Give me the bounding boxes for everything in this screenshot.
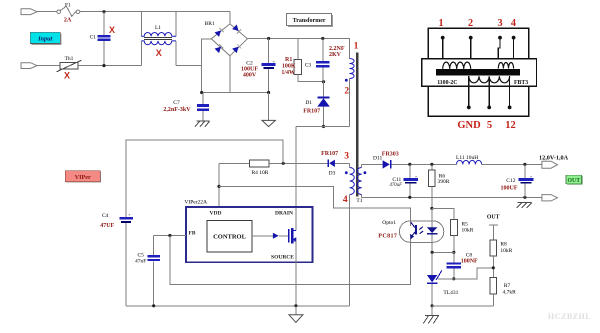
svg-text:CONTROL: CONTROL [213, 234, 247, 241]
svg-text:47UF: 47UF [100, 223, 114, 229]
resistor R5 [451, 219, 458, 235]
thermistor Th1 [37, 65, 60, 67]
svg-text:R8: R8 [500, 241, 507, 247]
resistor R1 [297, 39, 299, 60]
svg-text:C7: C7 [173, 100, 180, 106]
svg-text:2: 2 [344, 87, 349, 97]
wire bridge left to lower rail [202, 39, 212, 93]
node D3 cathode junction [282, 162, 285, 165]
label Input box [30, 32, 61, 45]
node junction C1 bottom [102, 64, 105, 67]
transistor TL431 [431, 252, 433, 275]
svg-text:R4 10R: R4 10R [252, 170, 269, 176]
svg-text:400V: 400V [243, 72, 257, 78]
svg-text:Transformer: Transformer [293, 18, 326, 24]
wire secondary output rail [362, 163, 383, 165]
svg-text:L1: L1 [155, 25, 161, 31]
wire drain column [295, 127, 297, 231]
svg-text:C1: C1 [90, 35, 97, 41]
svg-text:100K: 100K [282, 63, 296, 69]
pin 4 [512, 36, 516, 40]
wire TL431 ref [438, 268, 494, 279]
wire source column [295, 241, 297, 306]
pin 12 [508, 106, 512, 110]
svg-text:470uF: 470uF [389, 183, 402, 188]
svg-text:R7: R7 [504, 283, 511, 289]
svg-text:T1: T1 [356, 198, 362, 204]
svg-text:DRAIN: DRAIN [275, 211, 293, 217]
diode BR1 top-right [232, 25, 241, 34]
transformer T1 pin3 lead [349, 163, 351, 167]
power ground symbol under C2 [268, 93, 270, 121]
diode BR1 bottom-right [232, 44, 241, 53]
capacitor C4 [119, 217, 132, 220]
svg-text:Th1: Th1 [65, 56, 74, 62]
wire [37, 11, 57, 13]
svg-text:2,2nF-3kV: 2,2nF-3kV [163, 107, 191, 113]
wire bottom pin GND lead [468, 76, 470, 107]
svg-text:X: X [109, 25, 115, 35]
svg-text:L11 10uH: L11 10uH [456, 155, 478, 161]
resistor R7 [490, 277, 497, 294]
svg-text:C12: C12 [506, 178, 515, 184]
wire primary ground rail [126, 305, 350, 307]
wire bottom pin 12 lead [509, 76, 511, 107]
capacitor C2 [268, 39, 270, 64]
svg-text:C5: C5 [137, 252, 144, 258]
wire pin3 lead [498, 38, 500, 66]
transformer bobbin strip [422, 59, 537, 87]
winding aux top-right [498, 62, 513, 68]
resistor R6 [431, 164, 433, 170]
svg-text:FR303: FR303 [382, 151, 399, 157]
wire FB pin [154, 235, 186, 237]
inductor L1 common mode choke [140, 12, 142, 37]
svg-text:SOURCE: SOURCE [271, 254, 294, 260]
wire pin2 lead [470, 38, 472, 66]
capacitor C11 [409, 164, 411, 178]
node LED cathode junction [431, 251, 434, 254]
svg-text:47nF: 47nF [135, 259, 146, 265]
svg-text:1: 1 [438, 18, 443, 29]
label VIPer box [65, 171, 101, 183]
svg-text:X: X [64, 70, 70, 80]
winding secondary bottom [469, 76, 510, 83]
wire bridge bottom [229, 56, 231, 93]
ground earth symbol output [518, 201, 532, 203]
svg-text:D3: D3 [329, 171, 336, 177]
op-amp U1 VIPer22A box [186, 207, 313, 262]
wire FB to opto emitter [170, 236, 411, 285]
bridge rectifier BR1 [229, 12, 231, 24]
capacitor C5 [153, 236, 155, 256]
node phase dot aux [345, 171, 348, 174]
resistor R8 [490, 240, 497, 256]
output connector tag return [542, 195, 558, 201]
svg-text:10kR: 10kR [500, 248, 512, 254]
wire top rail [80, 11, 230, 13]
pin 5 [487, 106, 491, 110]
node phase dot primary [345, 79, 348, 82]
diode D1 FR107 [323, 82, 325, 97]
wire ground mid rail [202, 92, 269, 94]
svg-text:4: 4 [343, 195, 348, 205]
node R8/R7 junction [492, 266, 495, 269]
diode D11 FR303 [383, 160, 390, 168]
capacitor C12 [524, 164, 526, 178]
inductor L11 [457, 160, 482, 164]
diode D3 FR107 [327, 160, 329, 167]
svg-text:100NF: 100NF [461, 258, 478, 264]
diode BR1 bottom-left [215, 44, 224, 53]
wire R5 jog [432, 208, 454, 219]
transformer core bar [436, 69, 520, 76]
node VDD junction [217, 185, 220, 188]
pin 1 [441, 36, 445, 40]
svg-text:2: 2 [468, 18, 473, 29]
svg-text:Input: Input [37, 36, 52, 43]
pin 3 [498, 36, 502, 40]
wire secondary ground rail lower [432, 305, 493, 307]
node R6 bottom junction [430, 207, 433, 210]
svg-text:X: X [156, 48, 162, 58]
svg-text:D1: D1 [305, 100, 312, 106]
wire pin2 lead [349, 79, 351, 127]
wire C4 feed [126, 140, 283, 217]
svg-text:VIPer: VIPer [75, 174, 91, 181]
svg-text:4: 4 [511, 18, 516, 29]
svg-text:12,0V-1,0A: 12,0V-1,0A [539, 155, 569, 162]
node C12 top [523, 163, 526, 166]
capacitor C1 [103, 12, 105, 35]
transistor Q1 mosfet [288, 229, 290, 242]
wire drain rail [296, 126, 350, 128]
wire secondary ground rail [362, 196, 542, 198]
svg-text:12: 12 [505, 120, 516, 131]
transformer T1 secondary winding [357, 168, 362, 195]
wire aux rail pin3 [219, 162, 249, 164]
control block [207, 220, 252, 252]
wire VDD drop [218, 163, 220, 207]
wire secondary top lead [361, 164, 363, 167]
output connector tag plus [542, 161, 558, 168]
svg-text:BR1: BR1 [205, 21, 215, 27]
node R1/C3/D1 junction [322, 80, 325, 83]
transformer T1 aux winding [350, 168, 355, 195]
node OUT stub [489, 224, 498, 226]
pin 2 [469, 36, 473, 40]
wire VDD to opto collector jog [219, 186, 411, 221]
svg-text:FBT3: FBT3 [514, 80, 528, 86]
wire bottom pin 5 lead [488, 79, 490, 107]
svg-text:100UF: 100UF [501, 186, 518, 192]
ground power symbol primary [295, 306, 297, 315]
node R5/C8 junction [452, 251, 455, 254]
node C11 top [408, 163, 411, 166]
svg-text:OUT: OUT [568, 178, 581, 184]
node FB junction [168, 234, 171, 237]
svg-text:C4: C4 [102, 213, 109, 219]
svg-text:GND: GND [457, 120, 481, 131]
transformer T1 primary pin1 lead [349, 39, 351, 59]
pin GND [467, 106, 471, 110]
node junction C1 top [102, 10, 105, 13]
svg-text:C3: C3 [305, 63, 312, 69]
node drain rail / D1 [322, 125, 325, 128]
input connector tag top [21, 9, 37, 15]
svg-text:HCZBZHL: HCZBZHL [548, 312, 591, 321]
svg-text:VIPer22A: VIPer22A [184, 199, 207, 205]
wire pin4 lead [513, 38, 515, 66]
capacitor C8 [453, 252, 455, 262]
node C3 top [321, 37, 324, 40]
diode opto LED [431, 208, 433, 227]
svg-text:5: 5 [487, 120, 492, 131]
svg-text:2KV: 2KV [329, 52, 342, 58]
svg-text:R1: R1 [285, 57, 292, 63]
svg-text:FR107: FR107 [303, 108, 320, 114]
svg-text:1/4W: 1/4W [281, 70, 295, 76]
input connector tag bottom [21, 63, 37, 69]
svg-text:PC817: PC817 [378, 234, 397, 240]
winding primary top-left [443, 62, 471, 69]
svg-text:+: + [415, 174, 418, 179]
wire secondary bottom lead [361, 195, 363, 198]
svg-text:TL431: TL431 [443, 290, 458, 296]
svg-text:4,7kR: 4,7kR [503, 289, 517, 295]
node R6 top [430, 163, 433, 166]
capacitor C7 [202, 93, 204, 105]
svg-text:+: + [530, 174, 533, 179]
wire gate drive [252, 235, 273, 237]
svg-text:390R: 390R [438, 179, 450, 185]
wire DC+ rail [247, 38, 350, 40]
node C8 bottom junction [452, 277, 455, 280]
fuse F1 [57, 10, 61, 14]
opto-coupler Opto1 PC817 [399, 221, 443, 242]
resistor R4 [249, 160, 268, 167]
wire bottom rail [78, 65, 141, 67]
label Transformer box [287, 14, 333, 27]
node C2 top [267, 37, 270, 40]
transformer pinout box [428, 28, 528, 116]
wire R5 to LED cathode [432, 251, 454, 253]
svg-text:F1: F1 [65, 2, 71, 8]
transformer T1 primary winding [350, 59, 355, 79]
diode BR1 top-left [215, 28, 224, 37]
capacitor C3 [322, 39, 324, 62]
svg-text:C11: C11 [392, 177, 401, 183]
svg-text:R5: R5 [462, 221, 469, 227]
ground earth symbol TL431 [431, 306, 433, 316]
svg-text:VDD: VDD [210, 211, 222, 217]
transformer core [356, 53, 359, 197]
wire pin4 column [349, 195, 351, 306]
label OUT box [566, 175, 582, 184]
node TL431 ground [431, 304, 434, 307]
svg-text:3: 3 [497, 18, 502, 29]
svg-text:3: 3 [344, 151, 349, 161]
svg-text:OUT: OUT [487, 214, 500, 220]
svg-text:FR107: FR107 [321, 151, 338, 157]
wire pin1 lead [442, 38, 444, 66]
earth ground under C7 [197, 120, 210, 122]
svg-text:Opto1: Opto1 [382, 220, 396, 226]
node phase dot secondary [364, 171, 367, 174]
svg-text:1: 1 [354, 41, 359, 51]
svg-text:FB: FB [188, 230, 195, 236]
svg-text:2A: 2A [64, 18, 72, 24]
svg-text:10kR: 10kR [462, 228, 474, 234]
svg-text:1100-2C: 1100-2C [437, 80, 457, 86]
